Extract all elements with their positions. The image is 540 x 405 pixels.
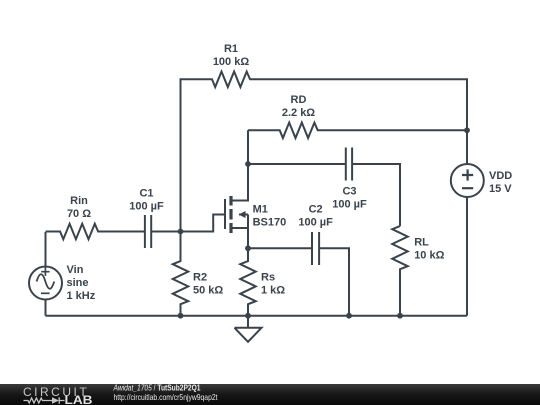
svg-text:C3: C3 — [342, 185, 356, 197]
svg-text:RL: RL — [414, 236, 429, 248]
svg-text:15 V: 15 V — [489, 183, 512, 195]
svg-text:RD: RD — [291, 94, 307, 106]
svg-text:R1: R1 — [224, 43, 238, 55]
svg-text:sine: sine — [67, 277, 89, 289]
svg-text:100 µF: 100 µF — [298, 216, 333, 228]
svg-text:50 kΩ: 50 kΩ — [193, 284, 223, 296]
svg-text:70 Ω: 70 Ω — [67, 208, 91, 220]
svg-text:100 µF: 100 µF — [129, 200, 164, 212]
svg-text:M1: M1 — [253, 203, 268, 215]
svg-text:Vin: Vin — [67, 264, 84, 276]
svg-text:100 kΩ: 100 kΩ — [213, 56, 250, 68]
svg-text:Awidat_1705 / TutSub2P2Q1: Awidat_1705 / TutSub2P2Q1 — [113, 384, 201, 393]
svg-text:Rin: Rin — [70, 195, 88, 207]
svg-text:R2: R2 — [193, 272, 207, 284]
svg-text:100 µF: 100 µF — [332, 198, 367, 210]
svg-text:LAB: LAB — [65, 393, 93, 405]
svg-text:Rs: Rs — [261, 272, 275, 284]
svg-text:http://circuitlab.com/cr5njyw9: http://circuitlab.com/cr5njyw9qap2t — [114, 393, 219, 402]
svg-text:10 kΩ: 10 kΩ — [414, 249, 444, 261]
svg-text:VDD: VDD — [489, 170, 512, 182]
svg-text:C2: C2 — [309, 203, 323, 215]
svg-text:BS170: BS170 — [253, 216, 287, 228]
svg-text:1 kHz: 1 kHz — [67, 290, 96, 302]
svg-text:C1: C1 — [139, 187, 153, 199]
svg-text:2.2 kΩ: 2.2 kΩ — [282, 107, 315, 119]
svg-text:1 kΩ: 1 kΩ — [261, 284, 285, 296]
